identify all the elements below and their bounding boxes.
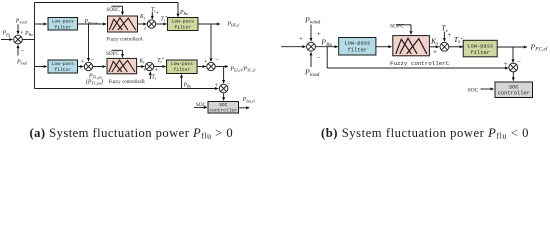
svg-text:Low-pass: Low-pass xyxy=(171,61,193,67)
svg-text:−: − xyxy=(91,57,95,64)
svg-text:SOC: SOC xyxy=(219,102,228,108)
svg-text:+: + xyxy=(156,10,160,17)
svg-text:(a) System fluctuation power P: (a) System fluctuation power Pflu > 0 xyxy=(30,126,234,141)
svg-text:filter: filter xyxy=(175,24,192,30)
svg-text:Kt: Kt xyxy=(139,14,146,20)
svg-text:Ts*: Ts* xyxy=(454,35,463,45)
svg-text:filter: filter xyxy=(348,48,367,54)
svg-text:PEL,el/PSC,el: PEL,el/PSC,el xyxy=(230,66,256,73)
svg-text:Fuzzy controllerB: Fuzzy controllerB xyxy=(109,80,146,85)
svg-text:+: + xyxy=(143,26,147,33)
svg-text:+: + xyxy=(8,33,12,40)
svg-text:Pwind: Pwind xyxy=(15,19,27,25)
svg-text:SOFC: SOFC xyxy=(390,24,404,30)
svg-text:filter: filter xyxy=(470,50,489,56)
svg-text:Low-pass: Low-pass xyxy=(344,41,370,47)
svg-text:SOEC: SOEC xyxy=(107,7,121,13)
svg-text:Pbat,el: Pbat,el xyxy=(242,97,255,104)
svg-text:Tt*: Tt* xyxy=(157,57,164,64)
svg-text:filter: filter xyxy=(174,67,191,73)
svg-text:−: − xyxy=(215,57,219,64)
svg-text:SOC: SOC xyxy=(509,84,519,90)
svg-text:controller: controller xyxy=(210,107,238,113)
svg-text:Pwind: Pwind xyxy=(304,15,321,25)
svg-text:Pload: Pload xyxy=(304,68,320,78)
svg-text:SOC: SOC xyxy=(196,102,207,108)
svg-text:PFC,el: PFC,el xyxy=(530,42,548,52)
svg-text:Low-pass: Low-pass xyxy=(52,19,74,25)
svg-text:Low-pass: Low-pass xyxy=(467,43,493,49)
svg-text:−: − xyxy=(317,54,321,62)
svg-text:PBu: PBu xyxy=(320,38,332,48)
svg-text:Fuzzy controllerC: Fuzzy controllerC xyxy=(390,60,450,67)
svg-text:controller: controller xyxy=(498,91,530,97)
svg-text:+: + xyxy=(20,29,24,36)
svg-text:SOFC: SOFC xyxy=(106,51,120,57)
svg-text:(b) System fluctuation power P: (b) System fluctuation power Pflu < 0 xyxy=(321,126,529,141)
svg-text:+: + xyxy=(155,67,159,74)
svg-text:Tt*: Tt* xyxy=(161,15,168,22)
svg-text:+: + xyxy=(204,58,208,65)
svg-text:Low-pass: Low-pass xyxy=(172,19,194,25)
svg-text:+: + xyxy=(143,67,147,74)
svg-text:SOC: SOC xyxy=(468,87,479,93)
svg-text:PBu: PBu xyxy=(179,10,188,16)
svg-text:+: + xyxy=(81,59,85,66)
svg-text:+: + xyxy=(504,60,508,68)
svg-text:+: + xyxy=(433,48,437,56)
svg-text:−: − xyxy=(227,80,231,87)
svg-text:Tt: Tt xyxy=(152,74,157,80)
svg-text:+: + xyxy=(447,31,451,39)
svg-text:+: + xyxy=(317,30,321,38)
svg-text:PHF,el: PHF,el xyxy=(227,22,240,29)
svg-text:Kt: Kt xyxy=(139,59,146,65)
svg-text:(PFC,pu): (PFC,pu) xyxy=(86,78,103,86)
svg-text:PBu: PBu xyxy=(24,31,33,37)
svg-text:PHF,pass: PHF,pass xyxy=(84,19,100,26)
svg-text:PBu: PBu xyxy=(183,82,192,88)
svg-text:Low-pass: Low-pass xyxy=(52,61,74,67)
svg-text:−: − xyxy=(517,58,521,66)
svg-text:−: − xyxy=(21,47,25,54)
svg-text:filter: filter xyxy=(55,67,72,73)
svg-text:Fuzzy controllerA: Fuzzy controllerA xyxy=(107,37,144,42)
svg-text:+: + xyxy=(299,35,303,43)
svg-text:filter: filter xyxy=(55,24,72,30)
svg-text:Pload: Pload xyxy=(16,59,27,65)
svg-text:Ks: Ks xyxy=(430,36,438,46)
svg-text:+: + xyxy=(215,82,219,89)
